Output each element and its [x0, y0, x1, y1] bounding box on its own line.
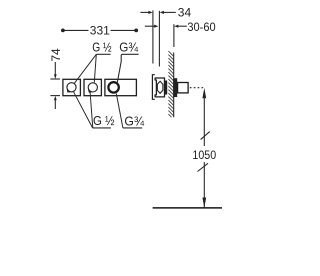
- dimension 331 line right segment: [111, 29, 137, 31]
- dimension 1050 lower line: [203, 162, 205, 208]
- dimension 34 left-pointing arrowhead: [160, 11, 164, 14]
- front view box 2: [84, 79, 101, 95]
- leader to port 1: [74, 54, 96, 84]
- leader from port 2 bottom: [90, 93, 93, 128]
- front view box 3: [105, 79, 136, 95]
- leader from port 3 bottom: [116, 94, 123, 128]
- svg-text:G ½: G ½: [92, 40, 112, 55]
- dimension 30-60 left leader: [145, 25, 155, 27]
- label G 1/2 top underline: [96, 53, 110, 55]
- dimension 1050 lower break slash: [198, 163, 209, 171]
- circle port 3 (thick ring): [108, 82, 118, 92]
- svg-text:30-60: 30-60: [187, 20, 215, 34]
- extension line A (stem face): [152, 10, 154, 63]
- dimension 74 lower shaft: [54, 100, 56, 109]
- label G 3/4 bottom underline: [123, 127, 142, 129]
- svg-text:G¾: G¾: [119, 40, 138, 55]
- label G 3/4 top underline and leader to port 3: [117, 54, 138, 83]
- dimension 34 left leader: [140, 11, 149, 13]
- svg-text:G¾: G¾: [124, 113, 144, 128]
- dimension 30-60 right-pointing arrowhead: [154, 25, 158, 28]
- svg-text:34: 34: [178, 6, 192, 20]
- side view cartridge lens (vertical diamond): [157, 81, 163, 93]
- dimension 74 up arrowhead: [54, 96, 57, 101]
- svg-text:G ½: G ½: [93, 113, 115, 128]
- dimension 331 left end dot: [61, 29, 65, 33]
- floor line: [153, 207, 222, 209]
- dimension 74 down arrowhead: [54, 74, 57, 79]
- centerline dotted: [190, 87, 203, 89]
- dimension 331 line left segment: [63, 29, 89, 31]
- wall hatching: [168, 51, 173, 117]
- side view flange bar: [165, 81, 167, 95]
- side view mounting bracket: [152, 75, 154, 100]
- dimension 74 bottom tick: [50, 95, 60, 97]
- side view stem: [178, 83, 189, 93]
- circle port 2: [88, 83, 97, 92]
- circle port 2 lever notch: [89, 89, 92, 92]
- svg-text:331: 331: [90, 24, 110, 38]
- dimension 34 right leader: [164, 11, 176, 13]
- side view trim collar: [173, 78, 177, 97]
- wall face line (section boundary): [173, 53, 175, 118]
- dimension 74 upper shaft: [54, 62, 56, 75]
- dimension 1050 down arrowhead: [202, 198, 206, 208]
- svg-text:74: 74: [49, 48, 63, 62]
- dimension 1050 upper break slash: [201, 132, 210, 140]
- front view box 1: [63, 79, 81, 95]
- extension line B (collar face): [158, 11, 160, 67]
- dimension 30-60 left-pointing arrowhead: [174, 25, 178, 28]
- dimension 1050 up arrowhead: [202, 88, 206, 98]
- dimension 74 top tick: [50, 78, 60, 80]
- leader from port 1 bottom: [74, 92, 93, 128]
- dimension 331 right end dot: [134, 29, 138, 33]
- dimension 30-60 right leader: [178, 25, 187, 27]
- extension line C (wall face): [173, 24, 175, 47]
- label G 1/2 bottom underline: [93, 127, 111, 129]
- dimension 1050 upper line: [203, 97, 205, 146]
- svg-text:1050: 1050: [192, 148, 216, 162]
- circle port 1: [67, 83, 76, 92]
- side view valve body with stepped left corners: [155, 78, 164, 97]
- dimension 34 right-pointing arrowhead: [148, 11, 152, 14]
- circle port 1 lever notch: [67, 89, 70, 92]
- leader to port 2: [94, 54, 96, 82]
